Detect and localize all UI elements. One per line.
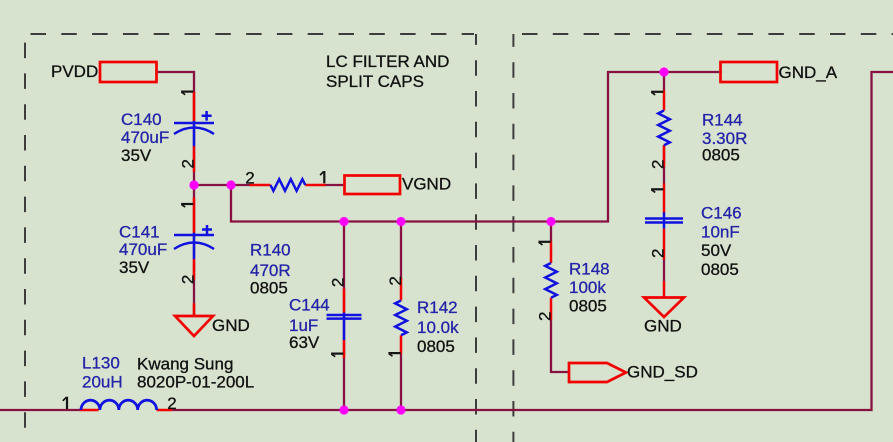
R148 pin 1 lead: [550, 241, 553, 263]
R144 pin number 1: [651, 92, 663, 95]
wire net VGND horizontal rail and riser to GND_A: [194, 72, 722, 222]
R148 zigzag body: [545, 263, 557, 298]
svg-text:Kwang Sung: Kwang Sung: [137, 355, 233, 374]
C141 positive plate: [174, 234, 214, 237]
capacitor C141: [119, 197, 214, 317]
svg-text:2: 2: [386, 276, 405, 285]
svg-text:2: 2: [245, 168, 254, 187]
port GND_A: [721, 62, 838, 82]
junction node mid rail at R142: [396, 217, 405, 226]
C144 upper plate: [327, 314, 362, 317]
R140 pin 1 lead: [305, 184, 325, 187]
dashed border box right left edge: [512, 34, 514, 442]
wire net PVDD from port to C140 pin 1: [157, 72, 194, 316]
svg-text:50V: 50V: [701, 241, 732, 260]
svg-text:GND: GND: [644, 317, 682, 336]
wire GND_A rail to R144 pin 1: [663, 72, 665, 90]
junction node VGND at C140/C141: [189, 180, 198, 189]
dashed border box left top edge: [25, 33, 474, 35]
svg-text:8020P-01-200L: 8020P-01-200L: [137, 373, 254, 392]
wire R148 branch lower to GND_SD port: [551, 320, 569, 372]
svg-text:0805: 0805: [250, 279, 288, 298]
svg-text:10nF: 10nF: [701, 223, 740, 242]
svg-text:0805: 0805: [702, 146, 740, 165]
junction node mid rail at C144: [339, 217, 348, 226]
wire R140 pin 1 to VGND port: [326, 184, 345, 186]
L130 pin 2 lead: [157, 409, 173, 412]
capacitor C140: [121, 92, 214, 173]
svg-text:20uH: 20uH: [82, 373, 123, 392]
C140 positive plate: [174, 122, 214, 125]
R142 pin 2 lead: [400, 278, 403, 301]
L130 pin number 1: [63, 397, 67, 409]
C144 body lead: [343, 313, 346, 341]
wire R148 branch upper: [550, 222, 552, 242]
port symbol rectangle GND_A: [721, 62, 778, 82]
wire bottom net right of L130 up to top right corner: [172, 72, 893, 410]
port GND_SD: [569, 363, 698, 383]
svg-text:C146: C146: [701, 204, 742, 223]
C146 upper plate: [645, 217, 683, 220]
C141 pin number 1: [181, 204, 193, 207]
svg-text:L130: L130: [82, 354, 120, 373]
C141 plus sign: [202, 225, 212, 234]
dashed border box right top edge: [513, 33, 893, 35]
svg-text:63V: 63V: [289, 333, 320, 352]
junction node mid rail at R148: [546, 217, 555, 226]
C141 pin 2 lead: [193, 259, 196, 280]
svg-text:0805: 0805: [417, 337, 455, 356]
C144 pin 2 lead: [343, 289, 346, 314]
R144 pin 1 lead: [663, 90, 666, 111]
resistor R144: [648, 90, 747, 169]
C146 lower plate: [645, 221, 683, 224]
svg-text:R148: R148: [569, 260, 610, 279]
port symbol rectangle VGND: [345, 176, 401, 195]
R140 zigzag body: [271, 179, 306, 191]
svg-text:C141: C141: [119, 223, 160, 242]
inductor L130: [63, 354, 177, 414]
C140 pin 2 lead: [193, 146, 196, 172]
svg-text:470uF: 470uF: [121, 128, 169, 147]
C140 plus sign: [202, 111, 212, 121]
capacitor C144: [289, 278, 362, 358]
R144 zigzag body: [658, 111, 670, 146]
svg-text:470R: 470R: [250, 261, 291, 280]
svg-text:GND_SD: GND_SD: [627, 363, 698, 382]
wire net VGND stub to R140 pin 2: [231, 184, 250, 186]
note text Kwang Sung part number: [137, 355, 254, 392]
dashed border box left right edge: [475, 34, 477, 442]
C146 lead to ground symbol: [663, 281, 666, 297]
R140 pin 2 lead: [250, 184, 271, 187]
svg-text:VGND: VGND: [402, 175, 451, 194]
svg-text:GND_A: GND_A: [779, 63, 838, 82]
port PVDD: [51, 62, 157, 82]
C144 pin 1 lead: [343, 340, 346, 358]
svg-text:PVDD: PVDD: [51, 62, 98, 81]
C140 curved plate: [174, 128, 214, 135]
svg-text:R140: R140: [250, 241, 291, 260]
R148 pin 2 lead: [550, 298, 553, 321]
svg-text:35V: 35V: [121, 146, 152, 165]
svg-text:35V: 35V: [119, 258, 150, 277]
wire C144 branch: [343, 222, 345, 411]
C146 pin 2 lead: [663, 229, 666, 260]
wire R144 pin 2 to C146 pin 1: [663, 145, 665, 184]
port VGND: [345, 175, 452, 195]
svg-text:GND: GND: [212, 316, 250, 335]
svg-text:SPLIT CAPS: SPLIT CAPS: [326, 72, 424, 91]
wire C146 pin 2 to GND: [663, 259, 665, 282]
svg-text:C144: C144: [289, 296, 330, 315]
R142 zigzag body: [395, 301, 407, 336]
port symbol pentagon GND_SD: [569, 363, 626, 382]
ground symbol GND below C146: [644, 298, 684, 336]
C140 body lead: [193, 121, 196, 147]
svg-text:0805: 0805: [569, 297, 607, 316]
svg-text:LC FILTER AND: LC FILTER AND: [326, 52, 449, 71]
note text LC FILTER AND SPLIT CAPS: [326, 52, 449, 91]
port symbol rectangle PVDD: [100, 62, 157, 82]
svg-text:2: 2: [328, 278, 347, 287]
wire R142 branch lower: [400, 354, 402, 410]
C141 curved plate: [174, 243, 214, 250]
svg-text:470uF: 470uF: [119, 240, 167, 259]
R142 pin number 1: [388, 353, 400, 356]
svg-text:10.0k: 10.0k: [417, 318, 459, 337]
svg-text:C140: C140: [121, 110, 162, 129]
svg-text:2: 2: [178, 275, 197, 284]
L130 coil body: [81, 400, 157, 410]
C140 pin number 1: [181, 92, 193, 95]
wire R142 branch upper: [400, 222, 402, 281]
svg-text:2: 2: [167, 394, 176, 413]
R144 pin 2 lead: [663, 145, 666, 167]
capacitor C146: [645, 183, 742, 297]
R142 pin 1 lead: [400, 335, 403, 354]
junction node VGND at R140 branch: [226, 180, 235, 189]
svg-text:0805: 0805: [701, 260, 739, 279]
R140 pin number 1: [320, 171, 324, 183]
C144 pin number 1: [331, 354, 343, 357]
svg-text:2: 2: [178, 159, 197, 168]
C146 body lead: [663, 212, 666, 228]
L130 pin 1 lead: [80, 409, 99, 412]
svg-text:2: 2: [648, 249, 667, 258]
C141 pin 1 lead: [193, 197, 196, 233]
junction node bottom rail at R142: [396, 405, 405, 414]
ground symbol GND below C141: [175, 316, 250, 336]
C146 pin number 1: [651, 189, 663, 192]
svg-text:R142: R142: [417, 298, 458, 317]
resistor R142: [386, 276, 459, 356]
resistor R140: [245, 168, 325, 297]
wire bottom net left of L130: [0, 409, 80, 411]
svg-text:100k: 100k: [569, 278, 606, 297]
svg-text:2: 2: [536, 312, 555, 321]
C144 lower plate: [327, 317, 362, 320]
resistor R148: [536, 241, 610, 321]
dashed border box left left edge: [24, 34, 26, 442]
svg-text:2: 2: [648, 160, 667, 169]
C141 lead to ground symbol: [193, 303, 196, 317]
R148 pin number 1: [538, 242, 550, 245]
C141 body lead: [193, 233, 196, 260]
junction node GND_A rail at R144: [659, 67, 668, 76]
svg-text:R144: R144: [702, 111, 743, 130]
junction node bottom rail at C144: [339, 405, 348, 414]
C146 pin 1 lead: [663, 183, 666, 213]
C140 pin 1 lead: [193, 92, 196, 123]
